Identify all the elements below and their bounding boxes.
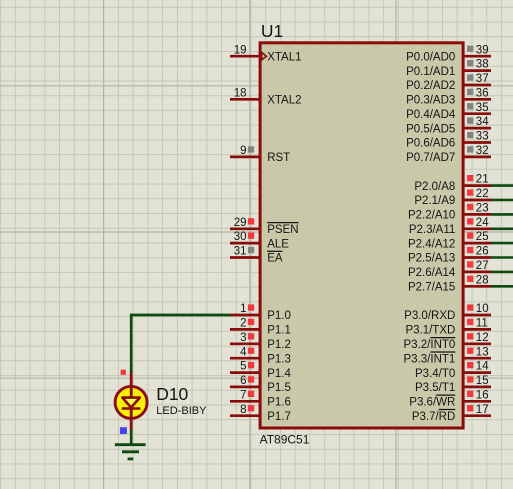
wire net P2.5 from pin 26 to sheet edge [491,256,513,259]
pin 1 (P1.0) left [230,314,260,317]
svg-text:3: 3 [240,332,246,344]
pin 16 (P3.6/WR) right [463,400,491,403]
pin 27 (P2.6/A14) right [463,271,491,274]
svg-text:1: 1 [240,303,246,315]
svg-text:18: 18 [234,87,247,99]
svg-text:P1.0: P1.0 [267,310,291,322]
svg-text:38: 38 [476,59,489,71]
wire P1.0 to D10 anode [131,315,231,373]
pin 4 (P1.3) left [230,357,260,360]
pin 3 (P1.2) left [230,342,260,345]
pin 10 (P3.0/RXD) right [463,314,491,317]
svg-text:39: 39 [476,44,489,56]
wire net P2.2 from pin 23 to sheet edge [491,213,513,216]
pin 25 (P2.4/A12) right [463,242,491,245]
svg-text:P3.1/TXD: P3.1/TXD [405,325,455,337]
svg-text:P2.5/A13: P2.5/A13 [408,253,455,265]
wire D10 cathode to ground [130,429,133,445]
LED D10 anode state indicator (red) [121,370,126,375]
svg-text:7: 7 [240,389,246,401]
pin 18 (XTAL2) left [230,98,260,101]
pin 33 (P0.6/AD6) right [463,141,491,144]
svg-text:31: 31 [234,246,247,258]
svg-text:LED-BIBY: LED-BIBY [156,405,207,417]
svg-text:P3.5/T1: P3.5/T1 [415,382,455,394]
pin 12 (P3.2/INT0) right [463,342,491,345]
pin 14 (P3.4/T0) right [463,371,491,374]
svg-text:AT89C51: AT89C51 [260,433,310,447]
svg-text:P2.6/A14: P2.6/A14 [408,267,456,279]
svg-text:P3.0/RXD: P3.0/RXD [404,310,455,322]
svg-text:21: 21 [476,174,489,186]
svg-text:11: 11 [476,318,488,330]
svg-text:XTAL2: XTAL2 [267,95,301,107]
wire net P2.1 from pin 22 to sheet edge [491,199,513,202]
svg-text:P3.4/T0: P3.4/T0 [415,368,455,380]
svg-text:P2.1/A9: P2.1/A9 [414,195,455,207]
svg-text:12: 12 [476,332,489,344]
pin 8 (P1.7) left [230,414,260,417]
svg-text:P3.7/RD: P3.7/RD [412,411,455,423]
svg-text:32: 32 [476,145,489,157]
svg-text:P0.6/AD6: P0.6/AD6 [406,138,455,150]
pin 36 (P0.3/AD3) right [463,98,491,101]
svg-text:4: 4 [240,346,247,358]
pin 5 (P1.4) left [230,371,260,374]
svg-text:P3.6/WR: P3.6/WR [409,397,455,409]
svg-text:10: 10 [476,303,489,315]
svg-text:16: 16 [476,389,489,401]
svg-text:P3.2/INT0: P3.2/INT0 [404,339,456,351]
svg-text:P2.0/A8: P2.0/A8 [414,181,455,193]
svg-text:34: 34 [476,116,489,128]
svg-text:P0.3/AD3: P0.3/AD3 [406,95,455,107]
svg-text:P0.5/AD5: P0.5/AD5 [406,123,455,135]
svg-text:36: 36 [476,87,489,99]
svg-text:27: 27 [476,260,489,272]
pin 23 (P2.2/A10) right [463,213,491,216]
svg-text:P2.4/A12: P2.4/A12 [408,238,455,250]
svg-text:19: 19 [234,44,247,56]
pin 17 (P3.7/RD) right [463,414,491,417]
svg-text:9: 9 [240,145,246,157]
svg-text:P1.6: P1.6 [267,397,291,409]
svg-text:U1: U1 [261,21,283,41]
svg-text:33: 33 [476,131,489,143]
svg-text:P0.2/AD2: P0.2/AD2 [406,80,455,92]
pin 35 (P0.4/AD4) right [463,112,491,115]
svg-text:RST: RST [267,152,290,164]
pin 15 (P3.5/T1) right [463,386,491,389]
svg-text:P1.1: P1.1 [267,325,291,337]
svg-text:28: 28 [476,274,489,286]
svg-text:14: 14 [476,361,489,373]
svg-text:29: 29 [234,217,247,229]
svg-text:EA: EA [267,253,283,265]
svg-text:P2.7/A15: P2.7/A15 [408,282,455,294]
pin 32 (P0.7/AD7) right [463,156,491,159]
wire net P2.3 from pin 24 to sheet edge [491,228,513,231]
wire net P2.0 from pin 21 to sheet edge [491,184,513,187]
svg-text:P3.3/INT1: P3.3/INT1 [404,353,456,365]
pin 31 (EA) left [230,256,260,259]
pin 22 (P2.1/A9) right [463,199,491,202]
svg-text:P0.1/AD1: P0.1/AD1 [406,66,455,78]
LED D10 cathode state indicator (blue) [120,427,127,434]
pin 37 (P0.2/AD2) right [463,84,491,87]
pin 29 (PSEN) left [230,227,260,230]
pin 19 (XTAL1) left [230,55,260,58]
ground symbol [115,445,146,459]
pin 6 (P1.5) left [230,386,260,389]
svg-text:D10: D10 [156,384,188,404]
svg-text:5: 5 [240,361,246,373]
wire net P2.6 from pin 27 to sheet edge [491,271,513,274]
svg-text:PSEN: PSEN [267,224,298,236]
LED D10 [115,373,147,430]
svg-text:2: 2 [240,318,246,330]
svg-text:XTAL1: XTAL1 [267,51,301,63]
svg-text:17: 17 [476,404,489,416]
pin 30 (ALE) left [230,242,260,245]
svg-text:P1.5: P1.5 [267,382,291,394]
svg-text:P2.3/A11: P2.3/A11 [409,224,455,236]
svg-text:P0.4/AD4: P0.4/AD4 [406,109,456,121]
svg-text:25: 25 [476,231,489,243]
svg-text:15: 15 [476,375,489,387]
svg-text:30: 30 [234,231,247,243]
svg-text:22: 22 [476,188,489,200]
wire net P2.4 from pin 25 to sheet edge [491,242,513,245]
svg-text:P0.7/AD7: P0.7/AD7 [406,152,455,164]
pin 26 (P2.5/A13) right [463,256,491,259]
pin 34 (P0.5/AD5) right [463,127,491,130]
pin 24 (P2.3/A11) right [463,227,491,230]
svg-text:P1.7: P1.7 [267,411,291,423]
pin 13 (P3.3/INT1) right [463,357,491,360]
svg-text:P1.2: P1.2 [267,339,291,351]
svg-text:35: 35 [476,102,489,114]
pin 7 (P1.6) left [230,400,260,403]
pin 21 (P2.0/A8) right [463,184,491,187]
pin 9 (RST) left [230,156,260,159]
svg-text:P1.3: P1.3 [267,353,291,365]
pin 39 (P0.0/AD0) right [463,55,491,58]
pin 38 (P0.1/AD1) right [463,69,491,72]
svg-text:24: 24 [476,217,489,229]
svg-text:8: 8 [240,404,246,416]
svg-text:ALE: ALE [267,238,289,250]
IC U1 AT89C51 body [260,43,463,428]
pin 11 (P3.1/TXD) right [463,328,491,331]
svg-text:13: 13 [476,346,489,358]
pin 28 (P2.7/A15) right [463,285,491,288]
svg-text:37: 37 [476,73,489,85]
svg-text:P0.0/AD0: P0.0/AD0 [406,51,455,63]
svg-text:6: 6 [240,375,246,387]
wire net P2.7 from pin 28 to sheet edge [491,285,513,288]
svg-text:P2.2/A10: P2.2/A10 [408,210,455,222]
svg-text:23: 23 [476,203,489,215]
pin 2 (P1.1) left [230,328,260,331]
svg-text:26: 26 [476,246,489,258]
svg-text:P1.4: P1.4 [267,368,291,380]
